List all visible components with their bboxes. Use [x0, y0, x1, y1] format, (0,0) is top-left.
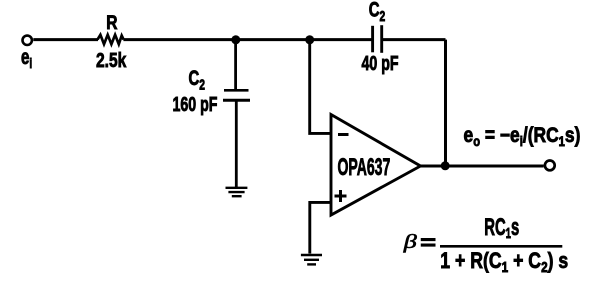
svg-text:C2: C2: [189, 67, 205, 93]
svg-text:β: β: [403, 230, 418, 252]
svg-text:R: R: [106, 12, 117, 34]
output terminal: [545, 161, 555, 171]
svg-text:160 pF: 160 pF: [173, 93, 218, 116]
capacitor C2 40pF plates: [371, 26, 374, 53]
value 40 pF: [362, 51, 399, 74]
svg-text:OPA637: OPA637: [338, 154, 391, 181]
equation denominator 1 + R(C1 + C2) s: [440, 249, 568, 275]
wire node A to node B: [236, 38, 310, 41]
wire node B to feedback capacitor: [310, 38, 372, 41]
svg-text:2.5k: 2.5k: [96, 49, 127, 72]
resistor R: [98, 35, 124, 44]
equation equals sign: [420, 232, 436, 255]
wire feedback vertical down to output node: [444, 40, 447, 166]
equation numerator RC1 s: [484, 215, 519, 242]
value 2.5k: [96, 49, 127, 72]
wire feedback capacitor to corner: [383, 38, 446, 41]
label C2 (40 pF cap): [369, 0, 385, 24]
ground below plus input: [301, 255, 322, 264]
capacitor C2 160pF bottom lead: [235, 100, 238, 187]
node B junction: [305, 35, 314, 44]
wire resistor to node A: [123, 38, 236, 41]
capacitor C2 160pF top lead: [234, 40, 237, 89]
op-amp U1 OPA637: [331, 115, 421, 216]
output node junction: [441, 161, 450, 170]
svg-text:eo = −ei/(RC1s): eo = −ei/(RC1s): [464, 125, 581, 150]
equation fraction bar: [440, 245, 562, 248]
wire plus input to ground: [310, 202, 332, 253]
plus pin marker: [335, 190, 347, 202]
output wire: [420, 165, 544, 168]
wire input to resistor: [33, 38, 98, 41]
label e_o = -e_i/(RC1 s): [464, 125, 581, 150]
svg-text:ei: ei: [21, 44, 32, 71]
equation beta symbol: [403, 230, 418, 252]
ground below C2 160pF: [226, 188, 248, 196]
label e_i: [21, 44, 32, 71]
svg-text:40 pF: 40 pF: [362, 51, 399, 74]
capacitor C2 160pF plates: [224, 89, 249, 92]
svg-text:RC1s: RC1s: [484, 215, 519, 242]
input terminal e_i: [23, 36, 32, 45]
svg-text:C2: C2: [369, 0, 385, 24]
label R: [106, 12, 117, 34]
value 160 pF: [173, 93, 218, 116]
minus pin marker: [338, 133, 349, 136]
label C2 (160 pF cap): [189, 67, 205, 93]
wire node B down to inverting input: [310, 40, 331, 134]
node A junction: [231, 35, 240, 44]
svg-text:1 + R(C1 + C2) s: 1 + R(C1 + C2) s: [440, 249, 568, 275]
label OPA637: [338, 154, 391, 181]
svg-text:=: =: [420, 232, 436, 255]
